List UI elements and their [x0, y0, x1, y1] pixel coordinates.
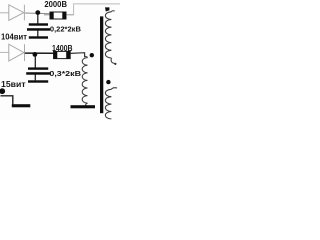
wire mid rail left lead: [0, 51, 9, 53]
winding W1 end lead: [111, 58, 115, 64]
wire resistor R1 left lead: [44, 14, 50, 16]
winding W1 (secondary top): [105, 12, 111, 58]
polarity dot winding 2: [106, 80, 110, 84]
wire up and over to transformer top: [74, 4, 120, 15]
winding W1 end blob: [114, 63, 116, 65]
wire plate2 to plate3: [34, 75, 36, 81]
wire plate2 to plate3: [37, 31, 39, 37]
node B junction dot: [33, 52, 38, 57]
polarity dot winding 3: [90, 53, 94, 57]
wire left lead of diode VD1: [0, 12, 9, 14]
winding W2 lead-in: [111, 88, 117, 90]
wire bottom bar: [12, 104, 31, 107]
wire bottom left L: [1, 96, 13, 105]
diode VD1: [9, 5, 25, 21]
wire resistor R1 right lead: [66, 14, 74, 16]
wire top rail: [25, 12, 50, 15]
capacitor C1 plate 3: [29, 36, 48, 38]
capacitor C2 plate 3: [28, 80, 48, 82]
transformer core: [100, 16, 103, 113]
diode VD2: [9, 44, 25, 61]
capacitor C2 plate 2: [26, 72, 50, 75]
capacitor C1 plate 1: [29, 23, 48, 25]
node A junction dot: [35, 10, 40, 15]
wire dot to capacitor C1: [37, 15, 39, 24]
winding W3 lead hook: [85, 56, 88, 57]
winding W3 (primary left): [82, 58, 87, 104]
wire resistor R2 right lead to winding W3: [70, 53, 84, 58]
winding W1 (secondary top) lead-in: [111, 11, 114, 12]
wire mid rail: [25, 52, 54, 54]
wire dot to capacitor C2: [34, 56, 36, 68]
node C dot bottom left: [0, 88, 5, 94]
winding W2 (secondary bottom): [105, 89, 111, 119]
capacitor C2 plate 1: [28, 67, 48, 69]
capacitor C1 plate 2: [27, 28, 50, 31]
polarity flag winding 1: [105, 7, 109, 11]
winding W3 bottom bar: [71, 105, 96, 108]
winding W3 bottom lead: [86, 103, 88, 105]
resistor R2: [53, 51, 70, 59]
resistor R1: [50, 12, 67, 20]
